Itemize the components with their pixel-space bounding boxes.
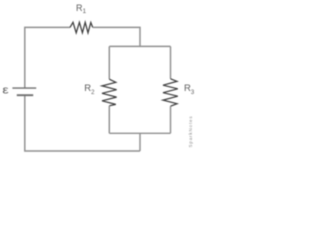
wire parallel box bottom edge and middle drop xyxy=(109,132,170,134)
svg-text:R1: R1 xyxy=(76,3,87,15)
wire left branch upper xyxy=(108,46,110,79)
svg-text:R2: R2 xyxy=(84,83,95,96)
battery short plate xyxy=(17,94,33,96)
wire bottom xyxy=(25,95,140,151)
wire left-top (battery positive up to top-left corner, to R1) xyxy=(25,27,70,88)
svg-text:SparkNotes: SparkNotes xyxy=(188,115,193,147)
svg-text:R3: R3 xyxy=(184,83,195,96)
wire left branch lower xyxy=(108,106,110,134)
wire right branch lower xyxy=(170,106,172,133)
wire right branch upper xyxy=(170,46,172,78)
wire parallel box top edge xyxy=(109,45,170,47)
resistor R2 xyxy=(102,79,117,106)
resistor R1 xyxy=(70,22,93,33)
battery long plate xyxy=(12,87,36,89)
wire middle drop to bottom xyxy=(139,133,141,151)
resistor R3 xyxy=(163,79,178,106)
wire top (R1 to right corner, down to parallel box) xyxy=(93,27,140,46)
svg-text:ε: ε xyxy=(2,84,9,96)
